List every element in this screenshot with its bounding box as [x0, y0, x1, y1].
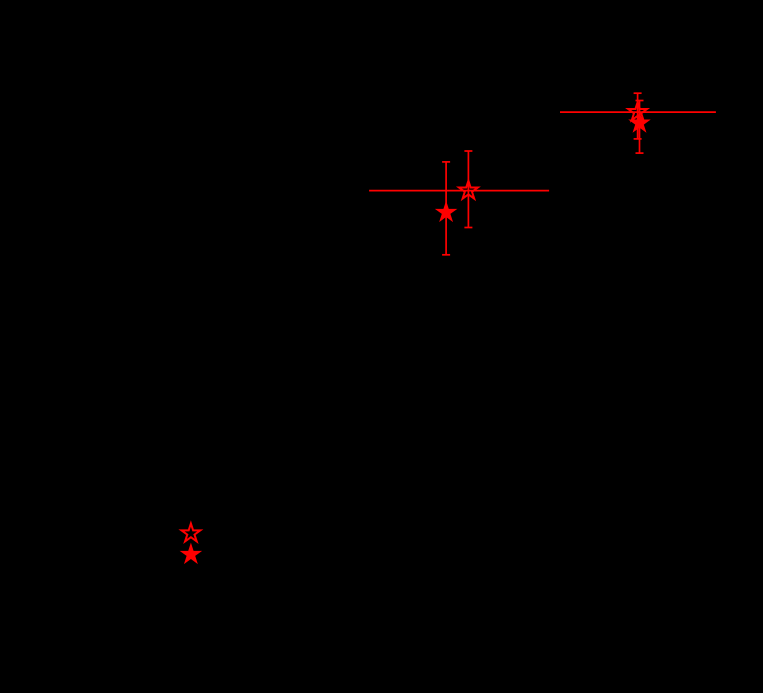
errorbar bottom cap D — [636, 152, 644, 154]
errorbar vertical line, open star C (top-right cluster) — [637, 93, 639, 139]
errorbar horizontal line C (x error, no caps) — [560, 111, 716, 113]
errorbar vertical line, filled star D (top-right cluster) — [639, 101, 641, 154]
errorbar top cap B — [464, 150, 472, 152]
errorbar bottom cap A — [442, 254, 450, 256]
errorbar horizontal line B (x error, no caps) — [369, 190, 549, 192]
errorbar top cap D — [636, 100, 644, 102]
filled star marker A (mid cluster) — [437, 203, 456, 221]
errorbar vertical line, filled star A (mid cluster) — [445, 162, 447, 255]
errorbar bottom cap C — [634, 138, 642, 140]
errorbar bottom cap B — [464, 227, 472, 229]
errorbar top cap A — [442, 161, 450, 163]
open star marker C (top-right cluster) — [628, 102, 647, 120]
filled star marker D (top-right cluster) — [630, 113, 649, 131]
filled star marker F (bottom-left pair) — [181, 545, 200, 563]
open star marker E (bottom-left pair) — [181, 524, 200, 542]
errorbar vertical line, open star B (mid cluster) — [467, 151, 469, 228]
errorbar top cap C — [634, 92, 642, 94]
open star marker B (mid cluster) — [459, 181, 478, 199]
